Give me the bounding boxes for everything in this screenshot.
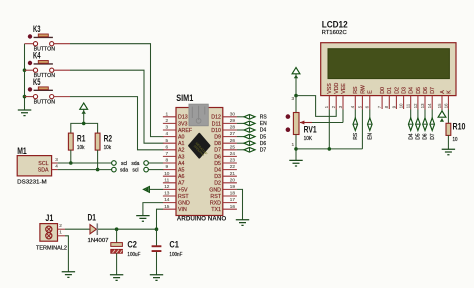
svg-text:20: 20 [230,177,236,182]
capacitor C1 100nF [152,229,183,275]
wire bridge to pin A5 [148,169,163,171]
wire R10 to ground [447,135,449,149]
wire D5 pin to terminal [417,110,419,119]
svg-text:D8: D8 [214,141,221,147]
ground left rail [18,110,32,116]
svg-text:16: 16 [443,103,448,108]
svg-text:1: 1 [292,142,295,147]
svg-text:D6: D6 [260,141,267,147]
wire SCL [58,162,112,164]
svg-text:10k: 10k [77,145,85,151]
wire D6 pin to terminal [424,110,426,119]
svg-text:E: E [368,90,374,94]
svg-text:27: 27 [230,131,236,136]
svg-text:13: 13 [164,191,170,196]
svg-text:10K: 10K [304,136,313,142]
lcd pin numbers rotated [324,103,448,108]
svg-text:23: 23 [230,158,236,163]
svg-text:BUTTON: BUTTON [34,99,56,105]
capacitor C2 100uF [111,229,141,275]
svg-text:scl: scl [121,161,127,167]
svg-text:VIN: VIN [178,207,187,213]
svg-text:SDA: SDA [38,167,49,173]
svg-text:1N4007: 1N4007 [88,238,109,244]
svg-text:19: 19 [230,184,236,189]
svg-text:D9: D9 [214,135,221,141]
svg-text:LCD12: LCD12 [322,20,348,30]
svg-text:D7: D7 [214,148,221,154]
wire K5 to pin A2 [54,96,70,98]
svg-text:21: 21 [230,171,236,176]
svg-text:A0: A0 [178,135,185,141]
svg-text:C2: C2 [127,240,136,250]
potentiometer RV1 [286,96,317,147]
svg-text:K4: K4 [33,51,41,61]
svg-text:11: 11 [406,103,411,108]
wire +5V node [71,123,98,133]
ground RV1 [289,160,302,166]
wire D4 pin to terminal [410,110,412,119]
wire RS pin to terminal [354,110,356,119]
connector J1 TERMINAL2 [36,213,67,252]
svg-text:A1: A1 [178,141,185,147]
node junction K5 rail [23,95,27,99]
node junction VSS [328,147,332,151]
wire bridge to pin A4 [148,162,163,164]
arduino chip diamond [189,134,209,158]
wire SDA [58,169,112,171]
svg-text:RT1602C: RT1602C [322,30,347,36]
svg-text:VEE: VEE [341,83,347,94]
ground J1 [62,272,75,278]
wire K3 to pin A0 [54,43,70,45]
wire pin25 to D7 terminal [237,149,244,151]
wire J1 pin1 to ground [65,236,68,272]
svg-text:3: 3 [292,96,295,101]
resistor R2 [95,133,112,151]
svg-text:sda: sda [131,161,139,167]
svg-text:R10: R10 [453,121,466,131]
svg-text:14: 14 [427,103,432,108]
ground C2 [110,275,123,281]
svg-text:D11: D11 [212,121,221,127]
svg-text:EN: EN [368,132,374,139]
power +5V arrow RV1 [292,68,300,96]
svg-text:3: 3 [165,125,168,130]
svg-text:TX1: TX1 [211,207,221,213]
svg-text:10: 10 [453,137,458,143]
wire pin29 to EN terminal [237,122,244,124]
svg-text:D7: D7 [260,148,267,154]
node terminal D6 [244,141,266,147]
svg-text:AREF: AREF [178,128,193,134]
power +5V pullup arrow [80,103,88,123]
node junction RV1 gnd [294,147,298,151]
svg-text:K5: K5 [33,77,41,87]
svg-text:GND: GND [209,187,221,193]
svg-text:D4: D4 [408,133,414,140]
svg-text:K: K [446,90,452,94]
wire pin30 to RS terminal [237,116,244,118]
svg-text:J1: J1 [45,213,53,223]
node junction R2 SDA [96,168,100,172]
node terminal RS [244,115,267,121]
node junction R1 SCL [69,161,73,165]
svg-text:10: 10 [399,103,404,108]
svg-text:2: 2 [59,223,62,228]
svg-text:D7: D7 [430,133,436,140]
wire J1 to D1 [65,228,90,230]
wire pin27 to D5 terminal [237,136,244,138]
arduino right pin stubs [223,117,237,209]
svg-text:RV1: RV1 [304,125,317,135]
svg-text:12: 12 [413,103,418,108]
svg-text:R1: R1 [77,134,86,144]
svg-text:10k: 10k [104,145,112,151]
svg-text:D3: D3 [402,87,408,94]
button K3 [25,24,56,52]
svg-text:28: 28 [230,125,236,130]
wire D7 pin to terminal [431,110,433,119]
wire pin19 GND [237,189,243,219]
node junction RV1 top [294,94,298,98]
ground pin19 [236,220,249,226]
svg-text:D3: D3 [214,174,221,180]
power +5V arrow pin12 [144,187,164,193]
svg-text:DS3231-M: DS3231-M [17,180,47,186]
button K5 [25,77,56,105]
wire K pin to R10 [447,110,449,124]
node terminal D7 vertical [430,118,436,140]
svg-text:8: 8 [165,158,168,163]
svg-text:12: 12 [164,184,170,189]
wire pin14 GND [143,203,163,216]
svg-text:scl: scl [132,168,138,174]
svg-text:4: 4 [55,163,58,168]
node terminal RS vertical [353,118,359,140]
svg-text:17: 17 [230,197,236,202]
svg-text:RW: RW [360,85,366,94]
ground C1 [150,275,163,281]
node terminal EN [244,121,267,127]
svg-text:1: 1 [165,111,168,116]
svg-text:RS: RS [353,132,359,140]
svg-text:M1: M1 [17,146,27,156]
svg-text:25: 25 [230,144,236,149]
wire RV1 bottom [295,135,297,161]
lcd screen [328,49,449,79]
svg-text:D4: D4 [260,128,267,134]
wire ground bus VSS RW [296,148,362,150]
svg-text:A7: A7 [178,181,185,187]
node junction C2 [115,227,119,231]
arduino SIM1 body [176,93,226,223]
svg-text:15: 15 [164,204,170,209]
svg-text:RST: RST [178,194,189,200]
arduino right pin numbers [230,111,236,208]
svg-text:13: 13 [420,103,425,108]
svg-text:A5: A5 [178,168,185,174]
node label sda scl row2 [120,168,138,174]
svg-text:29: 29 [230,118,236,123]
svg-text:24: 24 [230,151,236,156]
svg-text:D6: D6 [423,87,429,94]
node terminal EN vertical [368,118,374,140]
svg-text:SIM1: SIM1 [176,93,193,103]
svg-text:ARDUINO NANO: ARDUINO NANO [177,216,227,223]
node junction C1 VIN [155,227,159,231]
wire VSS down [328,110,330,149]
node sda bridge right top [144,161,149,166]
svg-text:TERMINAL2: TERMINAL2 [36,246,67,252]
svg-text:3: 3 [55,157,58,162]
svg-text:RS: RS [260,115,268,121]
button K4 [25,51,56,79]
svg-text:D5: D5 [260,134,267,140]
svg-text:D5: D5 [214,161,221,167]
svg-text:A3: A3 [178,154,185,160]
svg-text:K3: K3 [33,24,41,34]
lcd LCD12 RT1602C body [321,20,456,96]
wire pin26 to D6 terminal [237,142,244,144]
svg-text:D13: D13 [178,115,188,121]
svg-text:26: 26 [230,138,236,143]
svg-text:A4: A4 [178,161,185,167]
svg-text:D5: D5 [416,133,422,140]
svg-text:+5V: +5V [178,187,188,193]
svg-text:4: 4 [165,131,168,136]
wire RW down [361,110,363,149]
svg-text:D4: D4 [214,168,221,174]
svg-text:VDD: VDD [334,82,340,93]
svg-text:14: 14 [164,197,170,202]
svg-text:D10: D10 [211,128,221,134]
wire RV1 wiper to VEE [300,110,343,125]
wire R1 bottom [70,150,72,163]
svg-text:6: 6 [165,144,168,149]
svg-text:RS: RS [353,86,359,94]
svg-text:22: 22 [230,164,236,169]
svg-text:2: 2 [165,118,168,123]
resistor R1 [68,133,85,151]
svg-text:EN: EN [260,121,267,127]
module M1 DS3231-M [17,146,58,186]
svg-text:1: 1 [59,230,62,235]
svg-text:A: A [440,90,446,94]
svg-text:3V3: 3V3 [178,121,187,127]
arduino left pin names [178,115,193,213]
ground R10 [442,149,455,155]
svg-text:VSS: VSS [327,83,333,94]
svg-text:RST: RST [210,194,221,200]
svg-text:30: 30 [230,111,236,116]
node label scl sda row1 [121,161,140,167]
svg-text:RXD: RXD [210,201,221,207]
svg-text:D6: D6 [214,154,221,160]
node junction +5V [82,122,86,126]
svg-text:9: 9 [165,164,168,169]
wire VDD branch [296,96,336,117]
svg-text:D7: D7 [430,87,436,94]
node terminal D5 [244,134,266,140]
node terminal D4 vertical [408,118,414,140]
wire pin28 to D4 terminal [237,129,244,131]
node scl bridge right bottom [144,167,149,172]
svg-text:10: 10 [164,171,170,176]
node terminal D5 vertical [416,118,422,140]
svg-text:D12: D12 [211,115,221,121]
diode D1 1N4007 [88,213,109,244]
arduino USB connector [189,104,208,126]
svg-text:D6: D6 [423,133,429,140]
lcd pin stubs [329,96,448,110]
arduino left pin numbers [164,111,170,208]
ground pin14 [136,216,149,222]
svg-text:18: 18 [230,191,236,196]
node scl bridge left top [112,161,117,166]
wire K4 to pin A1 [54,69,70,71]
svg-text:D4: D4 [409,87,415,94]
svg-text:100nF: 100nF [169,252,182,258]
svg-text:15: 15 [437,103,442,108]
svg-text:100uF: 100uF [127,252,140,258]
power +5V arrow A pin [438,110,446,122]
node terminal D6 vertical [423,118,429,140]
svg-text:7: 7 [165,151,168,156]
arduino right pin names [209,115,222,213]
svg-text:5: 5 [165,138,168,143]
svg-text:11: 11 [164,177,169,182]
svg-text:sda: sda [120,168,128,174]
svg-text:D1: D1 [88,213,97,223]
svg-text:GND: GND [178,201,190,207]
svg-text:A6: A6 [178,174,185,180]
svg-text:A2: A2 [178,148,185,154]
arduino left pin stubs [163,117,176,209]
wire RV1 top [295,96,297,113]
node junction K4 rail [23,68,27,72]
wire left ground rail [24,44,26,110]
wire power rail [98,228,157,230]
lcd pin names rotated [327,82,452,93]
svg-text:D5: D5 [416,87,422,94]
svg-text:D2: D2 [214,181,221,187]
svg-text:R2: R2 [104,134,113,144]
node sda bridge left bottom [112,167,117,172]
resistor R10 [446,121,466,143]
svg-text:D1: D1 [387,87,393,94]
wire E pin to terminal [369,110,371,119]
node terminal D7 [244,148,266,154]
svg-text:D0: D0 [380,87,386,94]
svg-text:16: 16 [230,204,236,209]
svg-text:D2: D2 [394,87,400,94]
wire R2 bottom [97,150,99,170]
wire VIN [157,209,164,229]
svg-text:C1: C1 [169,240,179,250]
svg-text:SCL: SCL [38,161,48,167]
node terminal D4 [244,128,266,134]
